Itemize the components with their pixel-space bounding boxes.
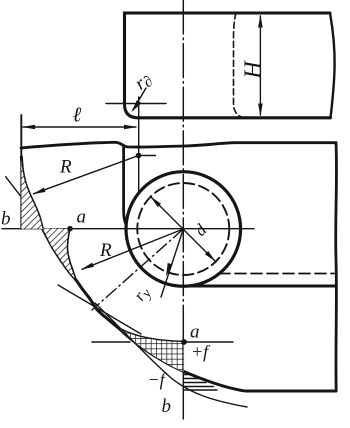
die right edge (334, 143, 338, 391)
hatched sliver upper (21, 159, 42, 229)
svg-text:a: a (190, 322, 200, 343)
line from bottom a right (186, 341, 233, 343)
die cavity left wall (124, 147, 126, 225)
radius r_u line (161, 229, 183, 297)
dimension d line (151, 197, 216, 262)
dimension R lower (82, 229, 183, 269)
label r_d (131, 69, 156, 96)
svg-text:R: R (59, 157, 72, 178)
horizontal hatch strokes (185, 375, 218, 391)
extension line left (20, 115, 22, 229)
die top edge (21, 142, 336, 148)
outer circle (126, 172, 241, 287)
top-left thin line (6, 177, 21, 196)
label d (191, 220, 211, 240)
svg-text:+f: +f (191, 342, 211, 362)
extension line right (138, 97, 140, 191)
tick at R center (139, 155, 156, 157)
leader r_d (106, 103, 166, 105)
die bottom surface (183, 285, 336, 288)
dot a bottom (181, 339, 187, 345)
svg-text:−f: −f (148, 370, 168, 390)
label r_u (130, 282, 156, 306)
die profile curve R (21, 157, 120, 329)
curve A to point a (120, 329, 184, 342)
svg-text:b: b (1, 209, 11, 230)
dimension H (259, 16, 261, 115)
punch right break edge (330, 13, 335, 118)
punch hidden contour (234, 13, 244, 118)
grid hatched wedge (120, 329, 184, 372)
punch body (125, 13, 331, 118)
svg-text:b: b (162, 396, 172, 417)
line from bottom a left (92, 341, 130, 343)
dimension R upper (34, 156, 139, 194)
horizontal center line b-a (2, 228, 254, 230)
svg-text:ℓ: ℓ (73, 103, 82, 127)
dot R center (136, 153, 142, 159)
hatched sliver lower (43, 228, 76, 279)
svg-text:H: H (241, 60, 267, 80)
dot a on b-a line (67, 226, 73, 232)
radial dash-dot line (92, 229, 183, 310)
svg-text:R: R (99, 240, 112, 261)
curve B lower profile (120, 329, 336, 391)
line a to curve (67, 229, 76, 280)
dimension l (23, 126, 136, 128)
thin tangent line (58, 285, 141, 334)
vertical center line (182, 0, 184, 345)
svg-text:a: a (77, 207, 87, 228)
label H (241, 60, 267, 80)
inner dashed circle d (137, 183, 229, 275)
hidden edge dashed (219, 273, 334, 275)
thin template curve (95, 303, 247, 407)
